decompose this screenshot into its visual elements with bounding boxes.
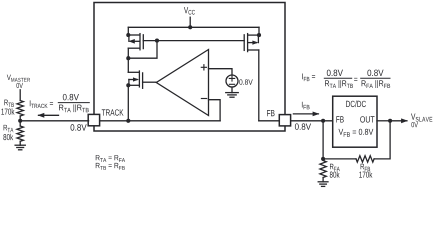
label FB of DC/DC: [336, 116, 343, 122]
node TRACK junction: [126, 119, 130, 123]
label FB pin: [267, 110, 274, 116]
wire OUT to slave node: [377, 120, 390, 122]
transistor M1 (PMOS, diode-connected): [126, 27, 143, 58]
label ITRACK numerator: [63, 94, 79, 101]
label 0.8V at FB: [295, 123, 311, 130]
label VSLAVE: [411, 114, 432, 122]
ground (RTA): [15, 144, 25, 146]
wire FB node down: [322, 121, 324, 159]
node slave output junction: [388, 119, 392, 123]
voltage source V1 0.8V reference: [226, 75, 238, 87]
label 0V master: [16, 83, 23, 88]
wire gate bus M1-M3: [143, 40, 244, 42]
resistor RTB: [17, 101, 23, 117]
node M1 drain junction: [126, 56, 130, 60]
label equals 2: [354, 78, 357, 81]
node gate bus junction: [155, 39, 159, 43]
wire Vcc rail: [128, 26, 259, 28]
label OUT of DC/DC: [360, 116, 374, 122]
wire Vcc stem: [189, 17, 191, 27]
ground (reference): [226, 92, 239, 94]
fraction bar 2: [361, 77, 390, 79]
pin FB square: [279, 115, 290, 126]
wire tap to TRACK pin: [20, 120, 88, 122]
node divider tap: [18, 119, 22, 123]
Vcc power label: [184, 7, 195, 15]
label VMASTER: [7, 75, 30, 82]
label IFB numerator 1: [327, 70, 343, 77]
DC/DC converter block: [333, 96, 377, 147]
resistor RTA: [17, 126, 23, 141]
wire TRACK node: [100, 120, 220, 122]
wire RFB to slave node: [374, 121, 390, 159]
label DC/DC: [346, 100, 366, 107]
arrow IFB direction: [293, 113, 318, 115]
wire FB pin to DC/DC: [291, 120, 333, 122]
wire RFA to ground: [322, 178, 324, 182]
wire op-amp plus input to reference: [209, 69, 233, 75]
op-amp minus input mark: [201, 98, 206, 100]
label RFA value: [330, 164, 340, 171]
fraction bar ITRACK: [58, 102, 89, 104]
node Vcc junction: [188, 25, 192, 29]
resistor RFA: [320, 161, 326, 178]
arrow to VSLAVE: [391, 120, 407, 122]
label IFB denominator 1: [325, 80, 353, 88]
label ITRACK equation: [30, 100, 53, 108]
label ITRACK denominator: [59, 104, 89, 112]
label RFB value: [361, 164, 371, 171]
label 0.8V reference value: [239, 79, 252, 84]
transistor M2 (NMOS, driven by op-amp): [126, 58, 156, 121]
label IFB equation: [302, 74, 315, 82]
node feedback divider junction: [321, 157, 325, 161]
node FB divider junction: [321, 119, 325, 123]
label 0V slave: [411, 122, 418, 127]
ground (RFA): [318, 181, 328, 183]
label TRACK: [102, 109, 124, 115]
label RTB value: [4, 100, 14, 107]
label VFB value: [338, 129, 373, 137]
transistor M3 (PMOS mirror output): [244, 27, 261, 121]
wire diode connection L: [128, 41, 157, 59]
label RTB equals RFB: [96, 163, 125, 170]
label 0.8V at TRACK: [71, 124, 87, 131]
label RTA value: [4, 125, 14, 132]
wire VMASTER stem: [19, 90, 21, 101]
outer IC boundary box: [94, 3, 285, 132]
wire M3 drain to FB pin: [259, 120, 279, 122]
label IFB current: [302, 102, 310, 110]
label IFB denominator 2: [362, 80, 391, 88]
resistor RFB: [356, 156, 374, 162]
op-amp U1: [156, 50, 208, 116]
wire node to RFB: [323, 158, 356, 160]
pin TRACK square: [88, 114, 99, 125]
wire RTA to ground: [19, 141, 21, 145]
label IFB numerator 2: [367, 70, 383, 77]
wire RTB to node: [19, 116, 21, 126]
wire op-amp minus input feedback: [209, 100, 221, 121]
wire reference to ground: [231, 87, 233, 93]
label RTA equals RFA: [96, 155, 125, 162]
op-amp plus input mark: [201, 65, 206, 70]
fraction bar 1: [324, 77, 351, 79]
arrow ITRACK direction: [39, 114, 59, 116]
